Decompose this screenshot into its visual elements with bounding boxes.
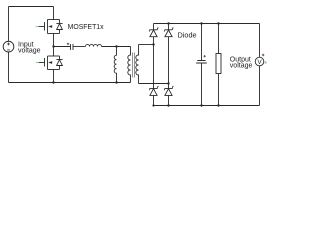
wire midpoint to capacitor xyxy=(54,46,71,48)
node Lm bottom junction xyxy=(115,81,117,83)
wire cap branch top xyxy=(201,24,203,61)
wire leg2 mid to bottom diode xyxy=(168,84,170,89)
inductor L1 (resonant) xyxy=(86,44,102,46)
gate port Q1 (green stub) xyxy=(36,26,39,28)
gate port Q2 (green stub) xyxy=(36,62,39,64)
node top rail cap xyxy=(200,22,202,24)
diode D4 bottom (bridge) xyxy=(165,87,174,106)
mosfet Q1 drain wire xyxy=(53,7,55,20)
svg-text:MOSFET1x: MOSFET1x xyxy=(68,24,105,31)
transformer T1 secondary winding xyxy=(136,45,139,84)
wire secondary top to bridge xyxy=(139,44,154,46)
wire output top rail xyxy=(154,23,260,25)
svg-text:Diode: Diode xyxy=(178,31,197,40)
diode D3 bottom (bridge) xyxy=(150,87,159,106)
node bottom rail resistor xyxy=(217,104,219,106)
wire inductor to transformer xyxy=(102,46,131,48)
mosfet Q2 drain wire xyxy=(53,47,55,57)
wire cap branch bottom xyxy=(201,63,203,106)
node bridge leg2 mid junction xyxy=(167,82,169,84)
node top rail leg2 xyxy=(167,22,169,24)
node Q2 source junction xyxy=(52,81,54,83)
wire top-left rail xyxy=(9,6,54,8)
svg-text:voltage: voltage xyxy=(230,63,253,70)
mosfet Q1 (MOSFET1x upper) xyxy=(39,20,63,34)
node bridge leg1 mid junction xyxy=(152,43,154,45)
svg-text:V: V xyxy=(257,59,262,66)
wire secondary bottom to bridge xyxy=(139,83,169,85)
wire left bottom rail xyxy=(9,82,131,84)
wire leg1 mid to bottom diode xyxy=(153,45,155,89)
voltmeter VM1 xyxy=(255,57,264,66)
transformer T1 primary winding xyxy=(128,47,131,83)
node bottom rail leg2 xyxy=(167,104,169,106)
diode D1 top (bridge) xyxy=(150,24,159,45)
wire voltmeter top xyxy=(259,24,261,58)
node Lm top junction xyxy=(115,45,117,47)
wire resistor branch bottom xyxy=(218,74,220,106)
wire output bottom rail xyxy=(154,105,260,107)
mosfet Q2 (MOSFET1x lower) xyxy=(39,56,63,70)
voltage source V1 xyxy=(3,41,14,52)
wire input source bottom lead xyxy=(8,52,10,83)
transformer T1 core xyxy=(133,53,135,78)
wire voltmeter bottom xyxy=(259,66,261,106)
capacitor C2 (output) xyxy=(196,61,207,64)
resistor R1 (load) xyxy=(216,54,221,74)
capacitor C1 (resonant) xyxy=(71,44,74,50)
svg-text:voltage: voltage xyxy=(18,48,41,55)
diode D2 top (bridge) xyxy=(165,24,174,84)
node bottom rail leg1 xyxy=(152,104,154,106)
wire input source top lead xyxy=(8,7,10,42)
node bottom rail cap xyxy=(200,104,202,106)
inductor Lm (magnetizing) xyxy=(114,47,116,83)
wire Q2 source to bottom rail xyxy=(53,70,55,83)
wire capacitor to inductor xyxy=(73,46,86,48)
node midpoint junction xyxy=(52,45,54,47)
wire Q1 source to midpoint xyxy=(53,34,55,47)
wire resistor branch top xyxy=(218,24,220,54)
node top rail resistor xyxy=(217,22,219,24)
voltmeter output port (green arrow) xyxy=(265,61,268,64)
